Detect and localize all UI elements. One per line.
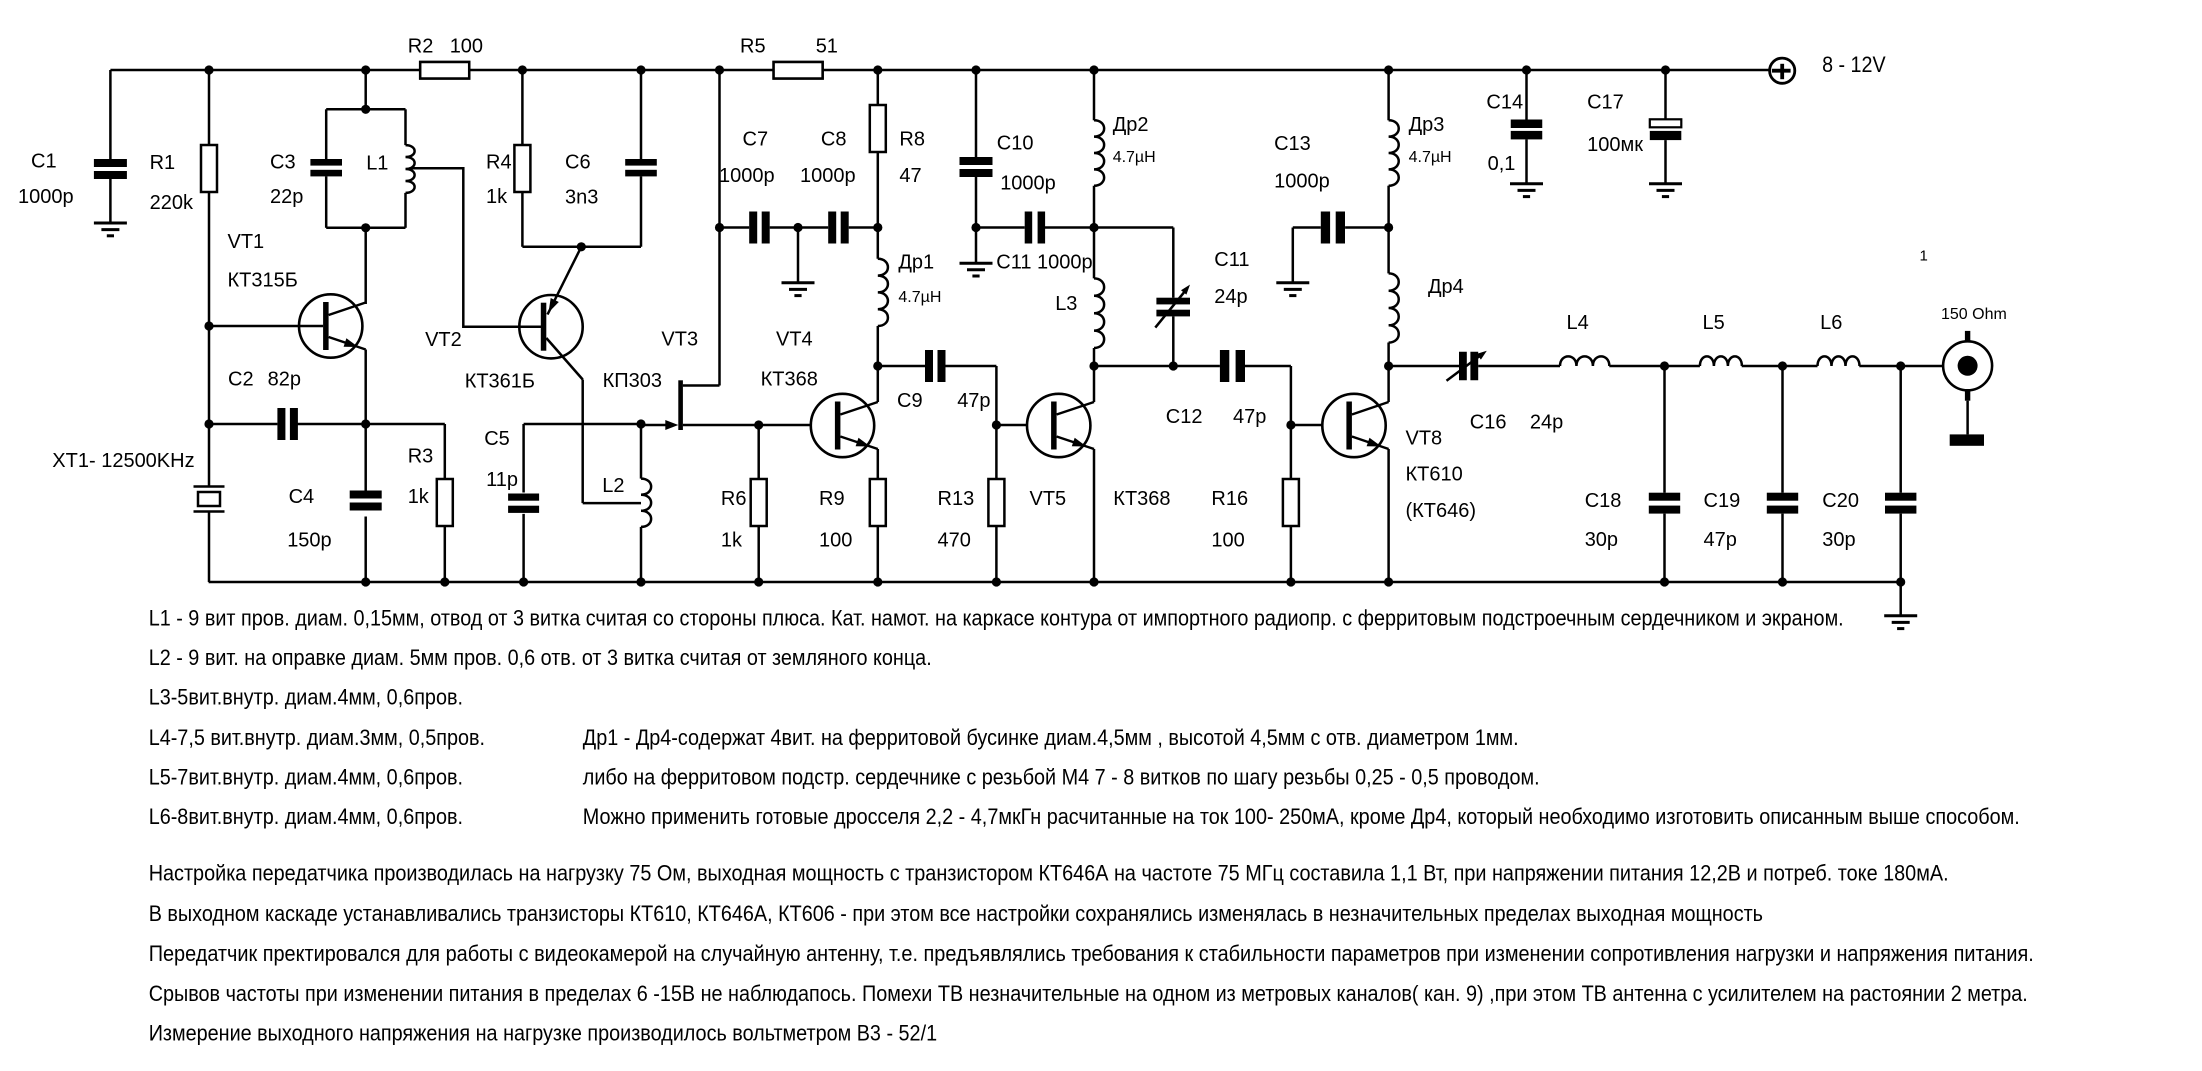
- svg-text:VT3: VT3: [661, 329, 698, 351]
- svg-text:R9: R9: [819, 488, 845, 510]
- svg-text:КТ368: КТ368: [1113, 488, 1170, 510]
- svg-text:VT8: VT8: [1406, 427, 1443, 449]
- svg-text:0,1: 0,1: [1488, 153, 1516, 175]
- svg-text:L5-7вит.внутр. диам.4мм, 0,6пр: L5-7вит.внутр. диам.4мм, 0,6пров.: [149, 765, 463, 790]
- svg-text:R4: R4: [486, 151, 512, 173]
- svg-text:1000p: 1000p: [1000, 172, 1056, 194]
- svg-text:L1 - 9 вит пров. диам. 0,15мм,: L1 - 9 вит пров. диам. 0,15мм, отвод от …: [149, 606, 1844, 631]
- svg-text:220k: 220k: [150, 192, 194, 214]
- svg-text:51: 51: [816, 35, 838, 57]
- svg-text:L3-5вит.внутр. диам.4мм, 0,6пр: L3-5вит.внутр. диам.4мм, 0,6пров.: [149, 684, 463, 709]
- svg-text:1000p: 1000p: [1274, 170, 1330, 192]
- svg-text:R6: R6: [721, 488, 747, 510]
- svg-text:C10: C10: [997, 132, 1034, 154]
- svg-text:C12: C12: [1166, 406, 1203, 428]
- svg-text:47p: 47p: [1233, 406, 1266, 428]
- svg-text:Можно применить готовые дроссе: Можно применить готовые дросселя 2,2 - 4…: [583, 804, 2020, 829]
- svg-text:L3: L3: [1055, 293, 1077, 315]
- svg-text:L4: L4: [1567, 312, 1589, 334]
- svg-text:150p: 150p: [287, 530, 332, 552]
- svg-text:VT5: VT5: [1030, 488, 1067, 510]
- svg-text:47: 47: [899, 165, 921, 187]
- svg-text:R5: R5: [740, 35, 766, 57]
- svg-text:100: 100: [1211, 530, 1244, 552]
- svg-text:1000p: 1000p: [18, 186, 74, 208]
- svg-text:либо на ферритовом подстр. сер: либо на ферритовом подстр. сердечнике с …: [583, 765, 1540, 790]
- svg-text:1k: 1k: [721, 530, 743, 552]
- svg-text:R8: R8: [899, 129, 925, 151]
- svg-text:Др1 - Др4-содержат 4вит. на фе: Др1 - Др4-содержат 4вит. на ферритовой б…: [583, 725, 1519, 750]
- svg-text:C8: C8: [821, 129, 847, 151]
- svg-text:C4: C4: [289, 486, 315, 508]
- svg-text:Срывов частоты при изменении п: Срывов частоты при изменении питания в п…: [149, 981, 2028, 1006]
- svg-text:8 - 12V: 8 - 12V: [1822, 52, 1886, 77]
- svg-text:24p: 24p: [1530, 412, 1563, 434]
- svg-text:Др3: Др3: [1409, 114, 1445, 136]
- svg-text:Др1: Др1: [898, 252, 934, 274]
- svg-text:(КТ646): (КТ646): [1406, 500, 1477, 522]
- svg-text:C14: C14: [1486, 92, 1523, 114]
- svg-text:47p: 47p: [957, 390, 990, 412]
- svg-text:3n3: 3n3: [565, 187, 598, 209]
- svg-text:R1: R1: [150, 152, 176, 174]
- svg-text:C5: C5: [484, 428, 510, 450]
- svg-text:4.7µН: 4.7µН: [898, 289, 941, 306]
- svg-text:C18: C18: [1585, 490, 1622, 512]
- svg-text:L6: L6: [1820, 312, 1842, 334]
- svg-text:470: 470: [938, 530, 971, 552]
- svg-text:100: 100: [450, 35, 483, 57]
- svg-text:30p: 30p: [1585, 529, 1618, 551]
- svg-text:Др4: Др4: [1428, 276, 1464, 298]
- svg-text:1000p: 1000p: [800, 165, 856, 187]
- svg-text:C17: C17: [1587, 92, 1624, 114]
- svg-text:C11: C11: [1214, 249, 1249, 271]
- svg-text:R13: R13: [938, 488, 975, 510]
- svg-text:L2 - 9 вит. на оправке диам. 5: L2 - 9 вит. на оправке диам. 5мм пров. 0…: [149, 645, 932, 670]
- svg-text:100мк: 100мк: [1587, 134, 1643, 156]
- svg-text:C19: C19: [1704, 490, 1741, 512]
- svg-text:R16: R16: [1211, 488, 1248, 510]
- svg-text:R2: R2: [408, 35, 434, 57]
- svg-text:КТ315Б: КТ315Б: [228, 270, 298, 292]
- svg-text:30p: 30p: [1822, 529, 1855, 551]
- svg-text:XT1- 12500KHz: XT1- 12500KHz: [52, 450, 194, 472]
- svg-text:C16: C16: [1470, 412, 1507, 434]
- svg-text:VT2: VT2: [425, 329, 462, 351]
- svg-text:C3: C3: [270, 151, 296, 173]
- svg-text:C2: C2: [228, 369, 254, 391]
- svg-text:100: 100: [819, 530, 852, 552]
- svg-text:C6: C6: [565, 151, 591, 173]
- svg-text:11p: 11p: [486, 469, 518, 491]
- svg-text:КТ361Б: КТ361Б: [465, 371, 535, 393]
- svg-text:L2: L2: [602, 475, 624, 497]
- svg-text:1k: 1k: [486, 186, 508, 208]
- svg-text:VT4: VT4: [776, 328, 813, 350]
- svg-text:Др2: Др2: [1113, 114, 1149, 136]
- svg-text:Передатчик пректировался для р: Передатчик пректировался для работы с ви…: [149, 941, 2034, 966]
- svg-text:КТ368: КТ368: [761, 369, 818, 391]
- svg-text:Настройка передатчика производ: Настройка передатчика производилась на н…: [149, 860, 1949, 885]
- svg-text:150 Ohm: 150 Ohm: [1941, 306, 2007, 323]
- svg-text:22p: 22p: [270, 186, 303, 208]
- svg-text:C7: C7: [743, 129, 769, 151]
- svg-text:КП303: КП303: [603, 370, 662, 392]
- svg-text:L4-7,5 вит.внутр. диам.3мм, 0,: L4-7,5 вит.внутр. диам.3мм, 0,5пров.: [149, 725, 485, 750]
- svg-text:C20: C20: [1822, 490, 1859, 512]
- svg-text:L1: L1: [366, 153, 388, 175]
- svg-text:4.7µН: 4.7µН: [1409, 149, 1452, 166]
- svg-text:L5: L5: [1703, 312, 1725, 334]
- svg-text:Измерение выходного напряжения: Измерение выходного напряжения на нагруз…: [149, 1021, 937, 1046]
- svg-text:VT1: VT1: [228, 231, 265, 253]
- svg-text:L6-8вит.внутр. диам.4мм, 0,6пр: L6-8вит.внутр. диам.4мм, 0,6пров.: [149, 804, 463, 829]
- svg-text:82p: 82p: [268, 369, 301, 391]
- svg-text:КТ610: КТ610: [1406, 464, 1463, 486]
- svg-text:24p: 24p: [1214, 286, 1247, 308]
- svg-text:1: 1: [1920, 247, 1928, 264]
- svg-text:C11 1000p: C11 1000p: [996, 251, 1092, 273]
- svg-text:47p: 47p: [1704, 529, 1737, 551]
- svg-text:R3: R3: [408, 446, 434, 468]
- svg-text:1000p: 1000p: [719, 165, 775, 187]
- svg-text:C13: C13: [1274, 133, 1311, 155]
- svg-text:C1: C1: [31, 150, 57, 172]
- svg-text:C9: C9: [897, 390, 923, 412]
- svg-text:В выходном каскаде устанавлив: В выходном каскаде устанавливались транз…: [149, 901, 1763, 926]
- svg-text:1k: 1k: [408, 486, 430, 508]
- svg-text:4.7µН: 4.7µН: [1113, 149, 1156, 166]
